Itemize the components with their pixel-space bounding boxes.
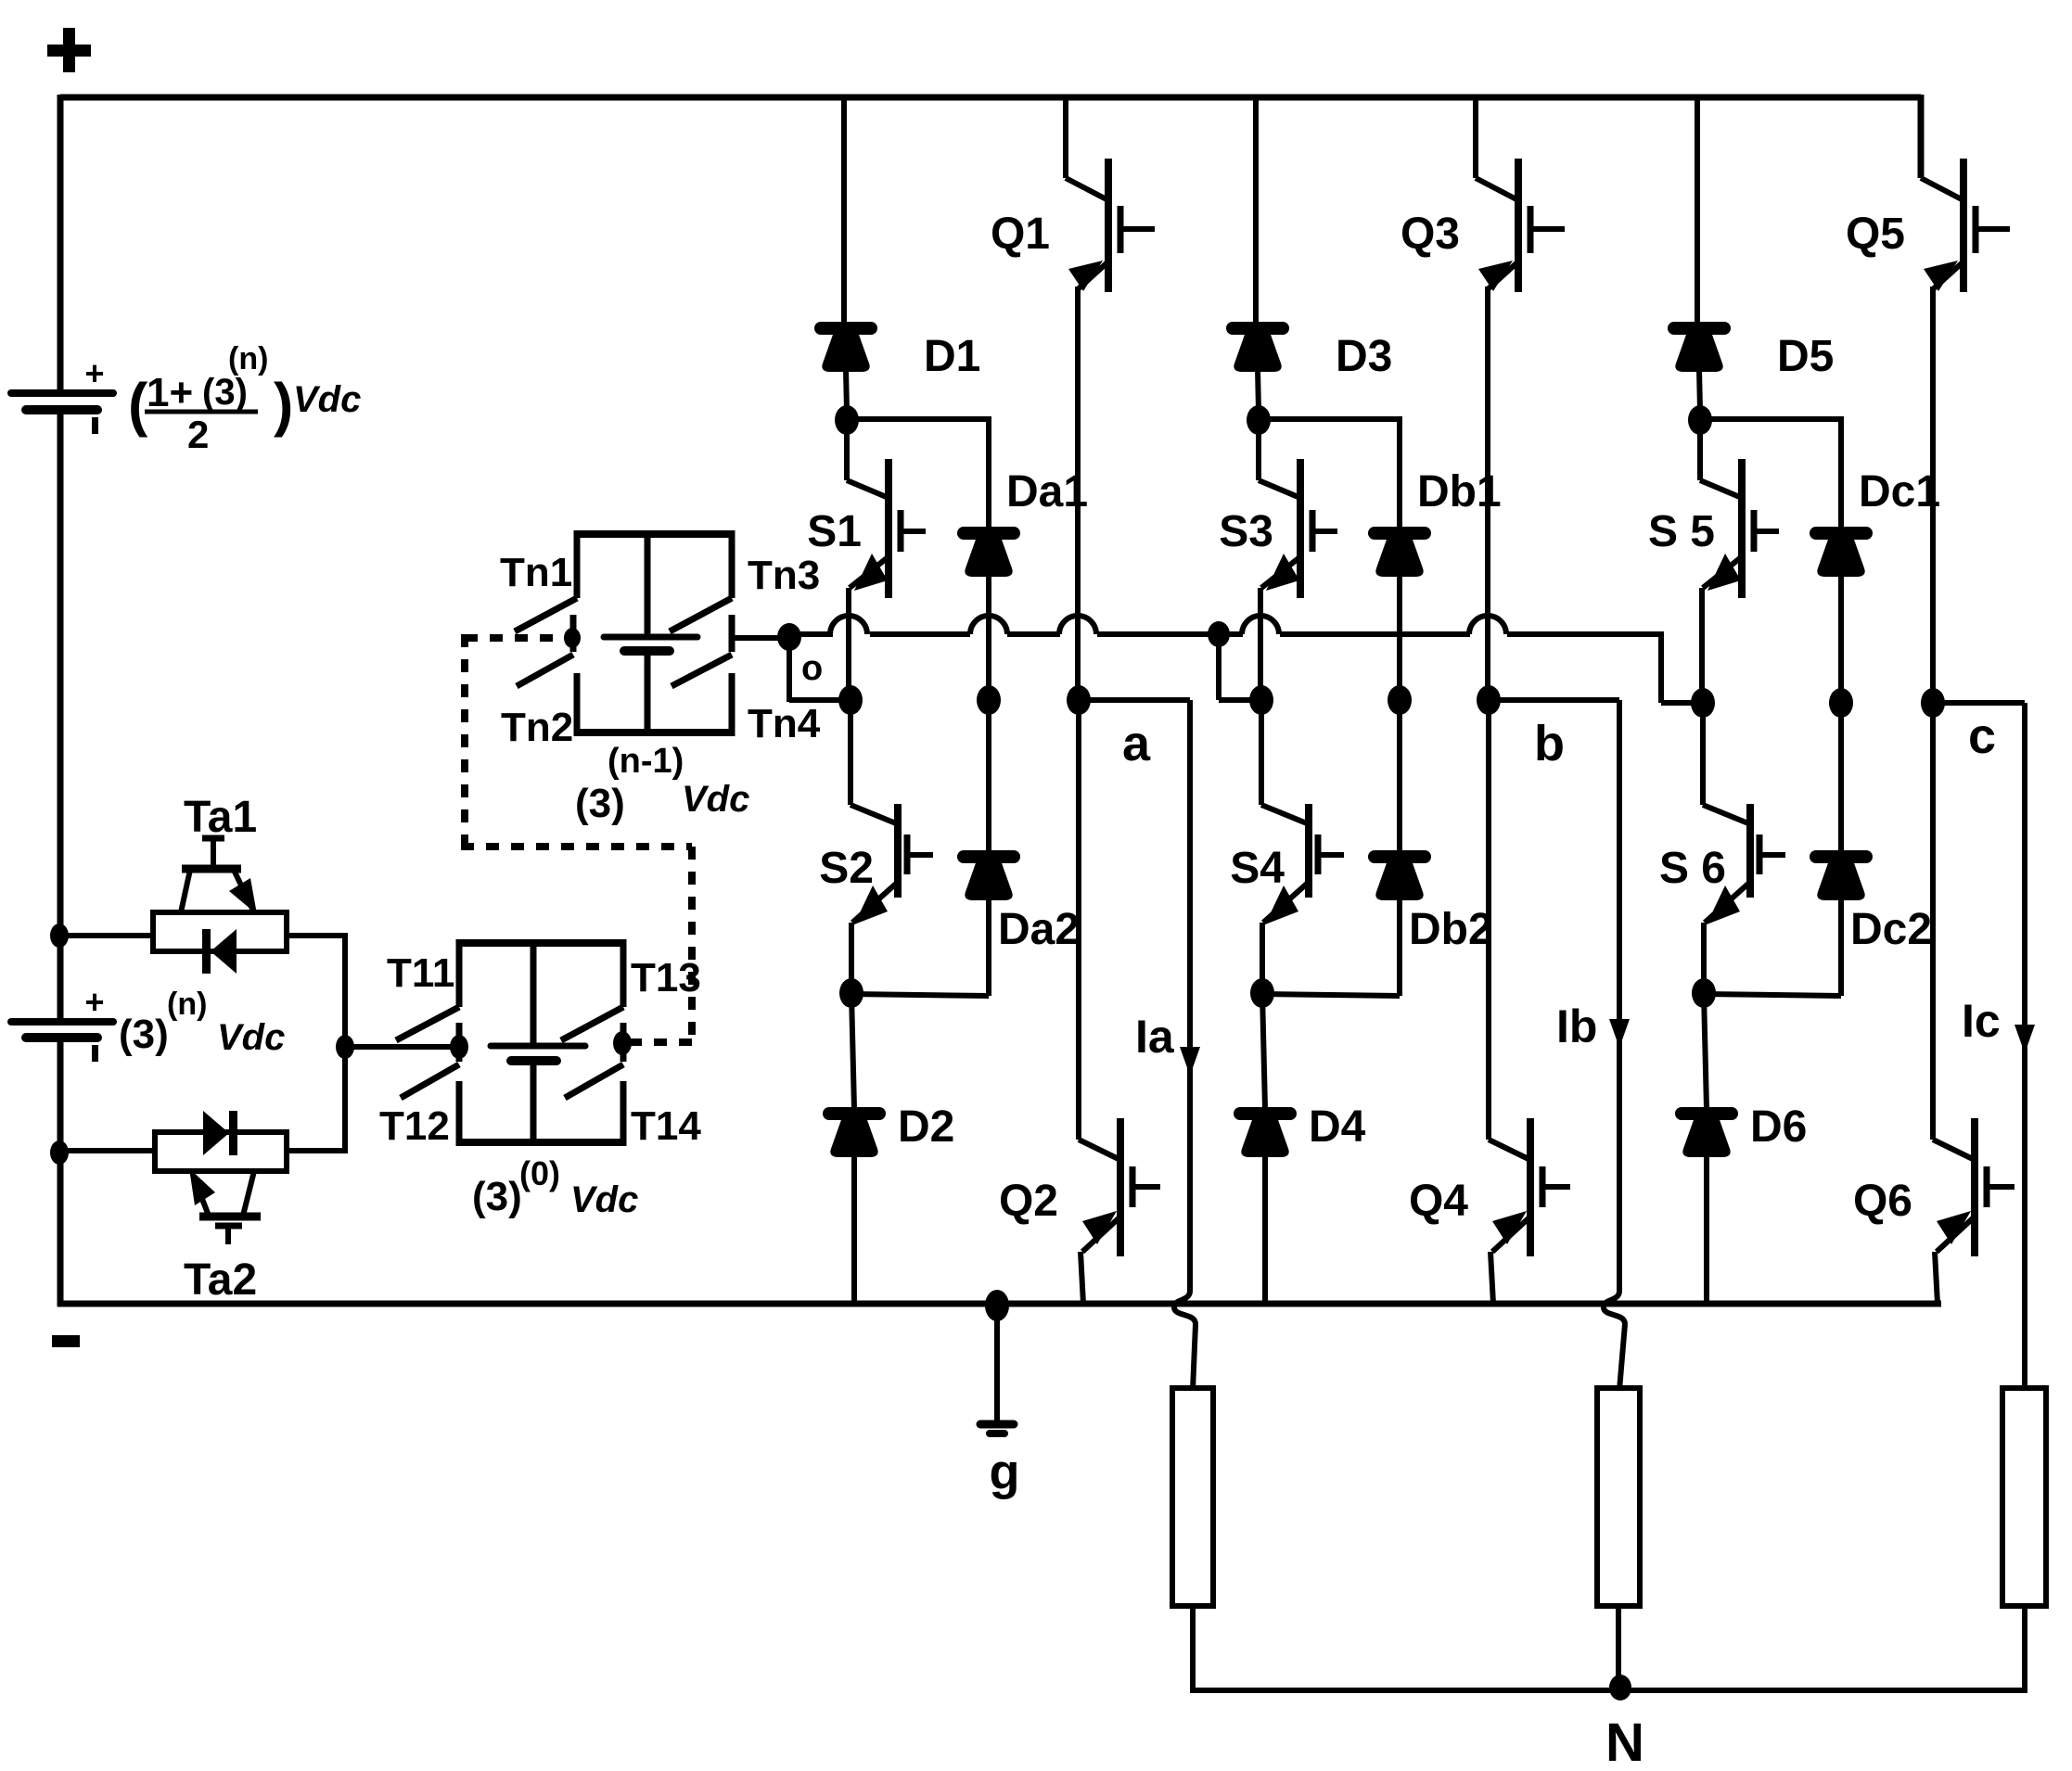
svg-text:2: 2 [187, 413, 209, 456]
diode Da1 [964, 527, 1014, 540]
current arrow Ia [1180, 1047, 1200, 1076]
svg-text:Ia: Ia [1135, 1011, 1175, 1063]
T1 cell bottom bus [456, 1139, 626, 1146]
transistor Ta1 symbol [182, 865, 241, 873]
svg-text:S1: S1 [807, 507, 862, 556]
diode D1 [821, 322, 871, 335]
node b tap junction [1208, 621, 1230, 647]
wire Rb to node N [1616, 1606, 1621, 1688]
DC source battery B1 (1+(3)^n)/2 Vdc [11, 389, 113, 397]
wire Q3 emitter to phase bus [1485, 287, 1490, 700]
svg-text:Da2: Da2 [998, 905, 1080, 954]
wire hop over Q3-Q4 link [1469, 616, 1506, 634]
wire junction Tn input [564, 628, 581, 648]
wire junction T1 output [613, 1031, 632, 1055]
diode Db1 [1375, 527, 1425, 540]
transistor Q3 [1476, 178, 1516, 199]
wire Db1 to phase bus [1397, 574, 1402, 700]
diode of Ta1 (antiparallel) [202, 929, 211, 974]
plus terminal label [47, 28, 91, 72]
wire junction phase bus at Da2 [977, 685, 1001, 715]
wire Q2 emitter to bottom rail [1081, 1252, 1083, 1304]
svg-text:D5: D5 [1777, 332, 1834, 381]
node o drop to phase a bus [787, 637, 792, 702]
svg-text:S 5: S 5 [1648, 507, 1715, 556]
switch T14 [565, 1064, 623, 1098]
svg-text:N: N [1605, 1713, 1644, 1771]
Tn cell source (3)^(n-1) Vdc [645, 530, 651, 637]
svg-text:): ) [274, 371, 293, 438]
svg-text:Tn4: Tn4 [748, 701, 821, 746]
svg-text:Vdc: Vdc [217, 1017, 285, 1058]
wire S 6 to D6 [1704, 993, 1707, 1109]
wire jog to resistor Rb [1619, 1324, 1625, 1390]
wire junction T1 input [450, 1035, 468, 1059]
svg-text:D4: D4 [1309, 1102, 1366, 1152]
wire S2 to D2 [851, 993, 854, 1109]
svg-text:+: + [84, 354, 104, 392]
T1 cell top bus [456, 939, 626, 947]
wire load b crossing jog [1604, 1291, 1625, 1324]
diode Da2 [964, 850, 1014, 863]
svg-text:Db2: Db2 [1409, 905, 1493, 954]
switch Tn4 [671, 655, 732, 686]
wire junction ground tap [985, 1290, 1009, 1321]
wire Q4 emitter to bottom rail [1490, 1252, 1493, 1304]
svg-text:Q2: Q2 [999, 1177, 1058, 1226]
transistor Ta2 symbol [199, 1213, 261, 1221]
svg-text:S2: S2 [819, 844, 874, 893]
wire junction at Ta2 tap [50, 1140, 69, 1165]
diode D5 [1674, 322, 1724, 335]
dashed link wire (cells chain) [465, 634, 568, 642]
wire junction phase bus at S 6 [1691, 688, 1715, 718]
svg-text:D3: D3 [1336, 332, 1392, 381]
svg-text:S4: S4 [1230, 844, 1285, 893]
wire top rail to D5 [1695, 97, 1700, 324]
wire Q5 emitter to phase bus [1930, 287, 1936, 703]
node o junction [777, 623, 801, 651]
wire top rail to D3 [1253, 97, 1259, 324]
wire Ta1 to cell input [287, 933, 345, 938]
svg-text:(: ( [128, 371, 148, 438]
transistor Ta2 module box [155, 1132, 287, 1171]
switch T13 [620, 939, 627, 1007]
transistor Q6 [1930, 703, 1936, 1140]
wire phase bus to Da2 [986, 700, 991, 852]
transistor Q4 [1486, 700, 1491, 1140]
wire phase a bus to load [1079, 697, 1190, 703]
svg-text:T11: T11 [387, 950, 454, 996]
svg-text:a: a [1122, 716, 1151, 771]
wire Ra to node N bus [1190, 1606, 1196, 1693]
wire Db2 to S4 emitter [1397, 898, 1402, 996]
wire to Ta1 [59, 933, 153, 938]
svg-text:Ib: Ib [1556, 1000, 1597, 1052]
diode Db2 [1375, 850, 1425, 863]
svg-text:Vdc: Vdc [570, 1179, 638, 1220]
switch T12 [401, 1064, 459, 1098]
wire junction phase bus at Dc2 [1829, 688, 1853, 718]
transistor Ta1 module box [153, 912, 287, 951]
wire junction phase bus at Q2 [1067, 685, 1091, 715]
wire cell chain to T1 cell [345, 1044, 461, 1050]
wire Da2 to S2 emitter [986, 898, 991, 996]
switch T11 [456, 939, 463, 1007]
left DC rail wire (lower) [58, 1040, 64, 1306]
svg-text:(3): (3) [575, 781, 625, 826]
diode D4 [1240, 1107, 1290, 1120]
svg-text:Ta1: Ta1 [184, 793, 257, 842]
wire junction to Dc1 branch [1700, 416, 1841, 422]
svg-text:(n): (n) [167, 987, 207, 1022]
left DC rail wire (upper) [58, 95, 64, 390]
svg-text:D6: D6 [1750, 1102, 1807, 1152]
wire junction to Db1 branch [1259, 416, 1400, 422]
bottom DC- rail wire [58, 1301, 1941, 1307]
wire D1 to junction [846, 369, 847, 411]
wire S1 emitter to phase bus [846, 588, 851, 700]
wire to Ta2 [59, 1148, 155, 1153]
svg-text:T14: T14 [631, 1103, 701, 1149]
svg-text:1+: 1+ [147, 370, 193, 415]
transistor S1 [844, 417, 850, 480]
wire junction below D1 [835, 405, 859, 435]
transistor Q2 [1076, 700, 1081, 1140]
svg-text:Ic: Ic [1962, 995, 2001, 1047]
svg-text:Ta2: Ta2 [184, 1255, 257, 1305]
wire junction at Ta1 tap [50, 924, 69, 948]
wire junction phase bus at Db2 [1388, 685, 1412, 715]
node N junction [1609, 1675, 1631, 1701]
wire junction Ta chain mid [336, 1035, 354, 1059]
switch Tn3 [729, 530, 735, 598]
wire D5 to junction [1699, 369, 1700, 411]
Tn cell bottom bus [574, 729, 735, 736]
DC source battery B2 (3)^n Vdc [11, 1018, 113, 1026]
wire Da1 to phase bus [986, 574, 991, 700]
wire D6 to bottom rail [1704, 1154, 1709, 1304]
wire Dc1 to phase bus [1838, 574, 1844, 703]
current arrow Ic [2014, 1025, 2035, 1053]
wire top rail to Q1 [1063, 97, 1068, 178]
wire junction phase bus at S2 [838, 685, 863, 715]
transistor S4 [1259, 700, 1264, 805]
svg-text:Tn1: Tn1 [500, 550, 572, 595]
top DC+ rail wire [60, 95, 1921, 101]
wire S 5 emitter to phase bus [1699, 588, 1705, 703]
svg-text:c: c [1968, 708, 1996, 764]
wire Tn output to node o [732, 635, 789, 641]
wire Ta2 to cell input [287, 1148, 348, 1153]
wire junction phase bus at Q4 [1477, 685, 1501, 715]
transistor S3 [1256, 417, 1261, 480]
ground symbol g [994, 1306, 1000, 1421]
svg-text:T12: T12 [379, 1103, 450, 1149]
svg-text:g: g [990, 1445, 1020, 1500]
svg-text:Dc1: Dc1 [1859, 467, 1940, 516]
wire hop over S1-S2 link [830, 616, 867, 634]
wire D4 to bottom rail [1262, 1154, 1268, 1304]
T1 cell source (3)^0 Vdc [531, 939, 537, 1046]
wire Rc to node N bus [2022, 1606, 2027, 1693]
wire junction to Da1 branch [847, 416, 989, 422]
diode D3 [1233, 322, 1283, 335]
svg-text:S3: S3 [1219, 507, 1273, 556]
svg-text:o: o [801, 649, 823, 688]
wire D2 to bottom rail [851, 1154, 857, 1304]
wire phase bus to Dc2 [1838, 703, 1844, 852]
transistor Q5 [1921, 178, 1962, 199]
svg-text:Tn3: Tn3 [748, 553, 820, 598]
wire junction below D3 [1247, 405, 1271, 435]
wire jog to resistor Ra [1193, 1324, 1196, 1390]
wire hop over S3-S4 link [1242, 616, 1279, 634]
svg-text:(n): (n) [228, 341, 268, 376]
wire S4 to D4 [1262, 993, 1265, 1109]
resistor Rc (load phase c) [2002, 1388, 2046, 1606]
svg-text:(3): (3) [119, 1012, 169, 1057]
transistor S 5 [1697, 417, 1703, 480]
transistor S 6 [1700, 703, 1706, 805]
wire hop over Q1-Q2 link [1059, 616, 1096, 634]
wire junction phase bus at S4 [1249, 685, 1273, 715]
wire top rail to Q3 [1473, 97, 1478, 178]
wire phase c bus to load [1933, 700, 2025, 706]
svg-text:b: b [1534, 716, 1565, 771]
left DC rail wire (middle) [58, 413, 64, 1020]
wire S2 emitter junction [849, 923, 854, 995]
diode D6 [1682, 1107, 1732, 1120]
wire D3 to junction [1258, 369, 1259, 411]
node o bus wire with hops [789, 631, 833, 637]
svg-text:Q1: Q1 [991, 210, 1050, 259]
node b drop to phase b bus [1216, 634, 1221, 700]
svg-text:D1: D1 [924, 332, 980, 381]
svg-text:S 6: S 6 [1659, 844, 1726, 893]
svg-text:Tn2: Tn2 [501, 705, 573, 750]
svg-text:Q4: Q4 [1409, 1177, 1468, 1226]
minus terminal label [52, 1335, 80, 1347]
svg-text:Vdc: Vdc [682, 779, 749, 820]
svg-text:(n-1): (n-1) [608, 742, 684, 781]
resistor Ra (load phase a) [1172, 1388, 1213, 1606]
transistor Q1 [1066, 178, 1106, 199]
transistor S2 [848, 700, 853, 805]
wire S3 emitter to phase bus [1258, 588, 1263, 700]
wire phase bus to Db2 [1397, 700, 1402, 852]
wire S4 emitter junction [1260, 923, 1265, 995]
resistor Rb (load phase b) [1597, 1388, 1640, 1606]
wire top rail to D1 [841, 97, 847, 324]
svg-text:Q6: Q6 [1853, 1177, 1912, 1226]
wire junction below D5 [1688, 405, 1712, 435]
diode of Ta2 (antiparallel) [229, 1111, 237, 1155]
current arrow Ib [1609, 1019, 1630, 1048]
wire top rail corner to Q5 [1918, 95, 1925, 178]
wire S 6 emitter junction [1701, 923, 1707, 995]
svg-text:Vdc: Vdc [293, 379, 361, 420]
svg-text:(3): (3) [472, 1174, 522, 1219]
diode Dc2 [1816, 850, 1866, 863]
wire phase b bus to load [1489, 697, 1619, 703]
diode D2 [829, 1107, 879, 1120]
svg-text:Dc2: Dc2 [1850, 905, 1932, 954]
switch Tn1 [574, 530, 581, 598]
svg-text:D2: D2 [898, 1102, 954, 1152]
wire Q6 emitter to bottom rail [1935, 1252, 1938, 1304]
wire Q1 emitter to phase bus [1075, 287, 1081, 700]
svg-text:Q3: Q3 [1401, 210, 1460, 259]
svg-text:+: + [84, 983, 104, 1021]
wire load a crossing jog [1174, 1291, 1196, 1324]
svg-text:(0): (0) [519, 1154, 560, 1192]
svg-text:(3): (3) [202, 372, 248, 413]
wire Dc2 to S 6 emitter [1838, 898, 1844, 996]
wire junction phase bus at Q6 [1921, 688, 1945, 718]
svg-text:Q5: Q5 [1846, 210, 1905, 259]
diode Dc1 [1816, 527, 1866, 540]
Tn cell top bus [574, 530, 735, 538]
wire hop over Da link [970, 616, 1007, 634]
switch Tn2 [517, 655, 573, 686]
